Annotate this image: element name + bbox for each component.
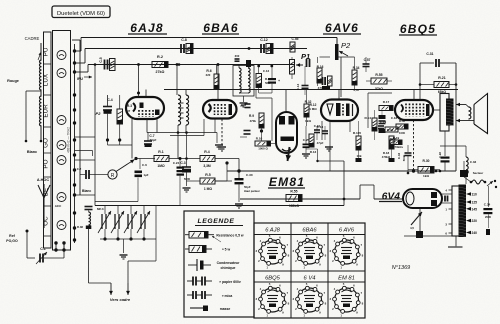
svg-text:6BA6: 6BA6	[302, 228, 317, 234]
svg-text:C.3: C.3	[180, 161, 185, 165]
svg-text:1000: 1000	[399, 131, 405, 135]
svg-text:50pF: 50pF	[244, 185, 251, 189]
svg-text:» mica: » mica	[222, 294, 233, 298]
svg-text:1μF: 1μF	[144, 173, 149, 177]
svg-text:6AJ8: 6AJ8	[130, 21, 164, 35]
svg-text:300: 300	[235, 54, 240, 58]
svg-text:LUX: LUX	[43, 73, 50, 86]
svg-text:27kΩ: 27kΩ	[156, 70, 165, 74]
svg-text:57kΩ: 57kΩ	[375, 87, 383, 91]
svg-text:C.2: C.2	[77, 167, 82, 171]
svg-text:C.30: C.30	[246, 173, 253, 177]
svg-text:R.34: R.34	[353, 66, 360, 70]
svg-text:6AV6: 6AV6	[325, 21, 359, 35]
svg-text:5000: 5000	[184, 177, 191, 181]
svg-text:+: +	[278, 79, 280, 83]
svg-text:C.33: C.33	[470, 160, 477, 164]
svg-text:C.32: C.32	[397, 153, 401, 160]
svg-text:C.14: C.14	[296, 84, 300, 91]
svg-text:R.4: R.4	[204, 150, 210, 154]
svg-text:C.57: C.57	[364, 58, 371, 62]
svg-text:R.1: R.1	[158, 150, 164, 154]
svg-text:R.30: R.30	[423, 159, 430, 163]
svg-text:145: 145	[472, 207, 478, 211]
svg-text:R.40: R.40	[399, 119, 405, 123]
svg-text:Condensateur: Condensateur	[217, 261, 240, 265]
svg-text:masse: masse	[220, 307, 231, 311]
svg-text:BE: BE	[43, 188, 50, 196]
svg-text:10k: 10k	[356, 154, 361, 158]
svg-text:ACC: ACC	[55, 204, 62, 208]
svg-text:47: 47	[127, 109, 131, 113]
svg-text:220: 220	[472, 219, 478, 223]
svg-text:R.55: R.55	[290, 190, 297, 194]
svg-text:R.10: R.10	[256, 137, 263, 141]
svg-text:C.4: C.4	[107, 98, 112, 102]
svg-text:EM 81: EM 81	[338, 276, 355, 282]
svg-text:C.12: C.12	[263, 69, 270, 73]
svg-text:MF.3: MF.3	[97, 207, 104, 211]
svg-text:6BQ5: 6BQ5	[400, 22, 436, 36]
svg-text:P1: P1	[301, 52, 310, 61]
svg-text:C.19: C.19	[380, 120, 387, 124]
svg-text:R.14: R.14	[364, 116, 371, 120]
svg-text:470k: 470k	[250, 119, 257, 123]
svg-text:C.55: C.55	[292, 37, 299, 41]
svg-text:EM81: EM81	[269, 175, 305, 189]
svg-text:468 KHZ — TRH2: 468 KHZ — TRH2	[67, 127, 71, 153]
svg-text:» papier 600v: » papier 600v	[219, 280, 241, 284]
svg-text:110: 110	[472, 193, 477, 197]
svg-text:R.19: R.19	[393, 136, 400, 140]
svg-text:Secteur: Secteur	[473, 171, 484, 175]
svg-text:Duetelet (VDM 60): Duetelet (VDM 60)	[57, 11, 105, 17]
svg-text:C.12: C.12	[260, 38, 268, 42]
svg-text:6 V4: 6 V4	[304, 276, 316, 282]
svg-text:Ref: Ref	[9, 234, 15, 238]
svg-text:EUR: EUR	[43, 104, 50, 118]
svg-text:6 AJ8: 6 AJ8	[265, 228, 280, 234]
svg-text:125: 125	[472, 201, 478, 205]
svg-text:C.13: C.13	[317, 125, 324, 129]
svg-text:R.3: R.3	[127, 104, 132, 108]
svg-text:1000 Ω: 1000 Ω	[258, 147, 268, 151]
svg-text:OC: OC	[43, 216, 50, 226]
svg-text:Rouge: Rouge	[7, 79, 19, 83]
svg-text:3,3M: 3,3M	[203, 164, 211, 168]
svg-text:GO: GO	[43, 138, 50, 148]
svg-text:IPU: IPU	[77, 77, 83, 81]
svg-text:LEGENDE: LEGENDE	[197, 218, 234, 225]
svg-text:Vers cadre: Vers cadre	[110, 297, 131, 302]
svg-text:R.5: R.5	[205, 173, 211, 177]
svg-text:1kΩ: 1kΩ	[423, 174, 429, 178]
svg-text:220: 220	[206, 73, 211, 77]
svg-text:1 MΩ: 1 MΩ	[309, 107, 317, 111]
svg-text:R.135: R.135	[353, 131, 362, 135]
svg-text:1 MΩ: 1 MΩ	[204, 187, 212, 191]
svg-text:C.5: C.5	[99, 57, 103, 62]
svg-text:P2: P2	[96, 111, 102, 116]
svg-text:6BA6: 6BA6	[203, 21, 238, 35]
svg-text:Resistance 0,5 w: Resistance 0,5 w	[216, 234, 244, 238]
svg-text:2000: 2000	[485, 215, 491, 219]
svg-text:C.6: C.6	[142, 163, 147, 167]
svg-text:N°1369: N°1369	[392, 265, 410, 271]
svg-text:C.34: C.34	[484, 203, 491, 207]
svg-text:Blanc: Blanc	[82, 189, 91, 193]
svg-text:R.38: R.38	[77, 225, 83, 229]
svg-text:R.13: R.13	[310, 150, 317, 154]
svg-text:CADRE: CADRE	[25, 36, 40, 41]
svg-text:C.24: C.24	[173, 161, 180, 165]
svg-text:Haut parleur: Haut parleur	[244, 189, 260, 193]
svg-text:R.2: R.2	[157, 55, 163, 59]
svg-text:R.55: R.55	[375, 73, 382, 77]
svg-text:47pF: 47pF	[317, 141, 324, 145]
svg-text:6 AV6: 6 AV6	[339, 228, 355, 234]
svg-text:PU: PU	[43, 47, 50, 56]
svg-text:R.9: R.9	[249, 114, 254, 118]
svg-text:1kΩ: 1kΩ	[305, 119, 311, 123]
svg-text:4,5: 4,5	[410, 226, 414, 230]
svg-text:4,7k: 4,7k	[353, 88, 359, 92]
svg-text:1MΩ: 1MΩ	[157, 164, 165, 168]
svg-text:R: R	[111, 173, 115, 179]
svg-text:R.21: R.21	[438, 76, 445, 80]
svg-text:chimique: chimique	[221, 266, 236, 270]
svg-text:C.31: C.31	[426, 52, 433, 56]
svg-text:6BQ5: 6BQ5	[265, 276, 281, 282]
svg-text:Blanc: Blanc	[27, 150, 37, 154]
svg-text:470kΩs: 470kΩs	[393, 145, 403, 149]
svg-text:470kΩ: 470kΩ	[382, 155, 391, 159]
svg-text:R.17: R.17	[383, 100, 390, 104]
svg-text:PO,GO: PO,GO	[6, 239, 18, 243]
svg-text:» 5 w: » 5 w	[222, 248, 231, 252]
svg-text:C.8: C.8	[181, 38, 187, 42]
svg-text:240: 240	[472, 231, 478, 235]
svg-text:180kΩ: 180kΩ	[289, 204, 299, 208]
svg-text:PO: PO	[43, 159, 50, 168]
svg-text:P2: P2	[341, 41, 351, 50]
